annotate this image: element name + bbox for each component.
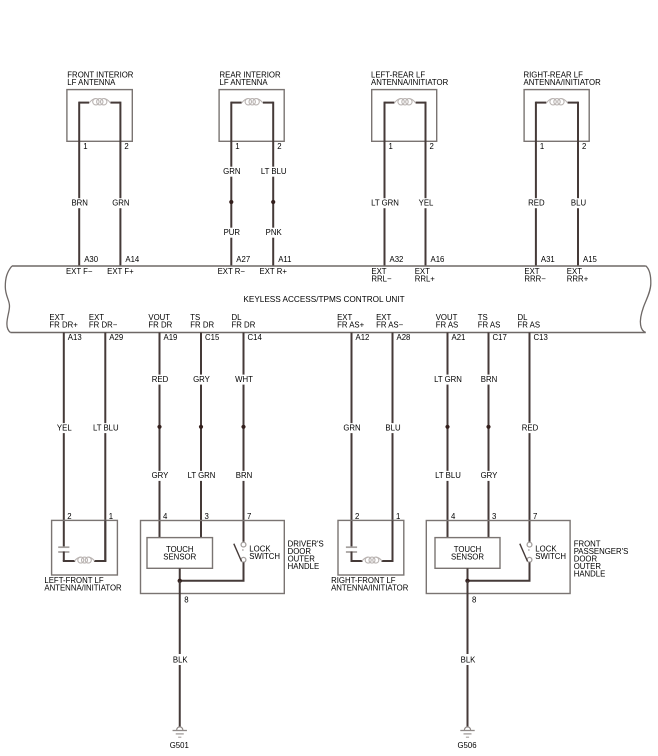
svg-text:LT BLU: LT BLU (435, 471, 461, 480)
svg-text:FR AS+: FR AS+ (337, 321, 365, 330)
svg-text:C13: C13 (534, 333, 548, 342)
svg-text:YEL: YEL (57, 423, 72, 432)
svg-text:RRL+: RRL+ (415, 274, 436, 283)
svg-text:C17: C17 (493, 333, 507, 342)
svg-text:A14: A14 (125, 255, 140, 264)
svg-text:GRN: GRN (223, 167, 240, 176)
svg-text:7: 7 (247, 512, 251, 521)
svg-text:C14: C14 (248, 333, 263, 342)
svg-text:2: 2 (277, 142, 281, 151)
svg-text:SWITCH: SWITCH (249, 552, 280, 561)
svg-text:A31: A31 (541, 255, 555, 264)
svg-text:1: 1 (389, 142, 393, 151)
svg-text:LF ANTENNA: LF ANTENNA (67, 78, 116, 87)
svg-text:GRY: GRY (481, 471, 499, 480)
svg-text:G506: G506 (457, 741, 476, 750)
svg-text:A19: A19 (164, 333, 178, 342)
svg-text:A27: A27 (236, 255, 250, 264)
svg-text:HANDLE: HANDLE (288, 562, 320, 571)
svg-text:4: 4 (163, 512, 168, 521)
svg-text:BLU: BLU (385, 423, 401, 432)
svg-text:FR AS: FR AS (518, 321, 541, 330)
svg-text:A28: A28 (397, 333, 411, 342)
svg-text:ANTENNA/INITIATOR: ANTENNA/INITIATOR (524, 78, 602, 87)
svg-text:EXT R−: EXT R− (218, 267, 246, 276)
svg-text:7: 7 (533, 512, 537, 521)
svg-text:WHT: WHT (235, 375, 253, 384)
svg-text:YEL: YEL (419, 199, 434, 208)
svg-text:2: 2 (355, 512, 359, 521)
svg-text:PNK: PNK (266, 228, 283, 237)
svg-text:FR DR−: FR DR− (89, 321, 118, 330)
svg-text:RED: RED (152, 375, 169, 384)
svg-text:A21: A21 (452, 333, 466, 342)
svg-text:SENSOR: SENSOR (163, 553, 196, 562)
svg-text:GRN: GRN (343, 423, 360, 432)
svg-text:ANTENNA/INITIATOR: ANTENNA/INITIATOR (371, 78, 449, 87)
svg-text:LF ANTENNA: LF ANTENNA (220, 78, 269, 87)
svg-text:EXT F−: EXT F− (66, 267, 93, 276)
svg-text:FR DR: FR DR (148, 321, 172, 330)
svg-text:8: 8 (472, 595, 476, 604)
svg-text:A15: A15 (583, 255, 598, 264)
svg-text:BRN: BRN (236, 471, 252, 480)
svg-text:A30: A30 (84, 255, 99, 264)
svg-text:GRY: GRY (152, 471, 170, 480)
svg-text:FR AS−: FR AS− (376, 321, 404, 330)
svg-text:FR DR: FR DR (190, 321, 214, 330)
svg-text:2: 2 (430, 142, 434, 151)
svg-text:PUR: PUR (224, 228, 241, 237)
svg-text:SENSOR: SENSOR (451, 553, 484, 562)
svg-text:1: 1 (109, 512, 113, 521)
svg-text:RED: RED (522, 423, 539, 432)
svg-text:BLK: BLK (461, 655, 477, 664)
svg-text:G501: G501 (170, 741, 189, 750)
svg-text:FR DR+: FR DR+ (49, 321, 78, 330)
svg-text:RED: RED (528, 199, 545, 208)
svg-text:A29: A29 (109, 333, 123, 342)
svg-text:FR DR: FR DR (232, 321, 256, 330)
svg-text:RRL−: RRL− (371, 274, 392, 283)
svg-text:EXT F+: EXT F+ (107, 267, 134, 276)
svg-text:LT BLU: LT BLU (261, 167, 287, 176)
svg-text:ANTENNA/INITIATOR: ANTENNA/INITIATOR (331, 584, 409, 593)
svg-text:1: 1 (83, 142, 87, 151)
svg-text:3: 3 (492, 512, 496, 521)
svg-text:HANDLE: HANDLE (574, 570, 606, 579)
svg-text:4: 4 (451, 512, 456, 521)
svg-text:RRR−: RRR− (524, 274, 546, 283)
svg-text:RRR+: RRR+ (567, 274, 589, 283)
svg-text:GRY: GRY (193, 375, 211, 384)
svg-text:FR AS: FR AS (478, 321, 501, 330)
svg-text:BLU: BLU (571, 199, 587, 208)
svg-text:LT GRN: LT GRN (434, 375, 462, 384)
svg-text:A16: A16 (431, 255, 445, 264)
svg-text:KEYLESS ACCESS/TPMS CONTROL UN: KEYLESS ACCESS/TPMS CONTROL UNIT (243, 295, 404, 304)
svg-text:8: 8 (184, 595, 188, 604)
svg-text:1: 1 (540, 142, 544, 151)
svg-text:A32: A32 (390, 255, 404, 264)
svg-text:2: 2 (124, 142, 128, 151)
svg-text:3: 3 (205, 512, 209, 521)
svg-text:A13: A13 (68, 333, 82, 342)
svg-text:LT GRN: LT GRN (371, 199, 399, 208)
svg-text:BRN: BRN (481, 375, 497, 384)
svg-text:1: 1 (235, 142, 239, 151)
svg-text:BLK: BLK (173, 655, 189, 664)
svg-text:C15: C15 (205, 333, 220, 342)
svg-text:2: 2 (582, 142, 586, 151)
svg-text:FR AS: FR AS (436, 321, 459, 330)
svg-text:GRN: GRN (112, 199, 129, 208)
svg-text:2: 2 (67, 512, 71, 521)
svg-text:SWITCH: SWITCH (535, 552, 566, 561)
svg-text:A11: A11 (278, 255, 291, 264)
svg-text:1: 1 (396, 512, 400, 521)
svg-text:LT BLU: LT BLU (93, 423, 119, 432)
svg-text:ANTENNA/INITIATOR: ANTENNA/INITIATOR (44, 584, 122, 593)
svg-text:LT GRN: LT GRN (188, 471, 216, 480)
svg-text:BRN: BRN (71, 199, 87, 208)
svg-text:EXT R+: EXT R+ (260, 267, 288, 276)
svg-text:A12: A12 (356, 333, 370, 342)
